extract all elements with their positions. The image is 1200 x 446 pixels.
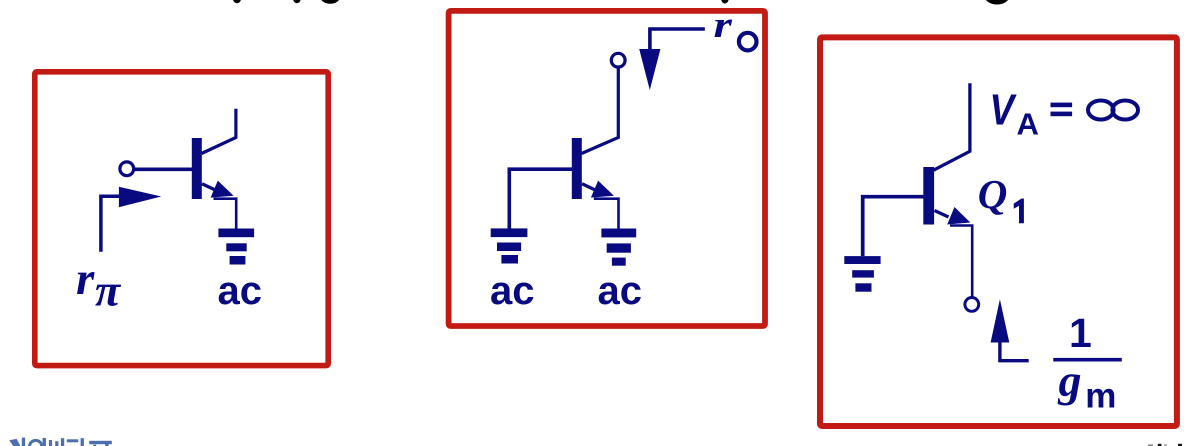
- title text fragment g bowl: [320, 0, 340, 4]
- emitter arrowhead box 2: [591, 181, 614, 198]
- wire: collector lead box 1: [202, 109, 236, 154]
- r_pi probe arrowhead: [119, 187, 161, 207]
- transistor Q1 base bar: [923, 167, 934, 225]
- svg-text:π: π: [95, 264, 122, 315]
- svg-text:m: m: [1085, 377, 1116, 416]
- node C2: collector open-circle terminal: [611, 53, 625, 67]
- wire: emitter lead box 2: [582, 184, 596, 191]
- label r_pi: [76, 253, 122, 315]
- label r_o: [714, 5, 757, 51]
- node E3: emitter open-circle terminal: [965, 298, 979, 312]
- wire: 1/gm probe L-wire: [1000, 341, 1029, 361]
- r_o probe arrowhead: [639, 49, 660, 90]
- wire: emitter bottom + vertical box 3: [950, 226, 972, 298]
- wire: emitter lead box 1: [202, 184, 216, 191]
- svg-text:1: 1: [1069, 310, 1092, 356]
- footer page number fragment: [1148, 444, 1182, 446]
- title text fragment (: [233, 0, 241, 3]
- label ac right box 2: [598, 269, 643, 313]
- svg-text:r: r: [714, 5, 733, 46]
- label 1/gm fraction: [1053, 310, 1122, 416]
- title text fragment ): [293, 0, 300, 3]
- frame box 2: [449, 11, 765, 326]
- emitter arrowhead box 1: [211, 181, 234, 198]
- node B1: input open-circle terminal: [120, 162, 134, 176]
- svg-text:ac: ac: [490, 269, 535, 313]
- svg-text:r: r: [76, 253, 95, 305]
- svg-text:V: V: [990, 85, 1017, 135]
- emitter arrowhead Q1: [947, 207, 970, 225]
- wire: r_pi probe L-wire: [101, 196, 120, 252]
- ac ground left box 2: [491, 228, 528, 263]
- wire: r_o probe L-wire: [650, 29, 705, 50]
- svg-text:ac: ac: [598, 269, 643, 313]
- ac ground right box 2: [601, 229, 636, 266]
- svg-text:A: A: [1017, 107, 1039, 142]
- wire: base L-wire box 3: [863, 197, 924, 256]
- 1/gm probe arrowhead (up): [991, 299, 1010, 342]
- footer logo fragment (Korean): [9, 438, 112, 446]
- wire: emitter bottom + vertical box 1: [214, 199, 237, 230]
- label ac box 1: [218, 269, 263, 313]
- title text fragment g bowl 2: [985, 0, 1009, 5]
- title text fragment y tail: [720, 0, 729, 4]
- label V_A = infinity: [990, 85, 1138, 142]
- transistor Q (box 2) base bar: [572, 138, 582, 199]
- svg-text:g: g: [1058, 355, 1082, 406]
- transistor Q (box 1) base bar: [192, 138, 202, 199]
- frame box 3: [820, 37, 1177, 426]
- label ac left box 2: [490, 269, 535, 313]
- frame box 1: [35, 72, 328, 366]
- ac ground box 1: [218, 229, 254, 265]
- wire: collector lead box 2: [582, 68, 619, 154]
- ac ground box 3: [844, 256, 880, 292]
- wire: base L-wire box 2: [509, 169, 572, 228]
- wire: emitter bottom + vertical box 2: [594, 199, 619, 230]
- wire: base lead box 1: [135, 168, 192, 172]
- svg-text:Q: Q: [978, 171, 1008, 217]
- label Q1: [978, 171, 1024, 223]
- wire: collector lead box 3: [934, 83, 970, 170]
- wire: emitter lead box 3: [935, 211, 949, 218]
- svg-text:ac: ac: [218, 269, 263, 313]
